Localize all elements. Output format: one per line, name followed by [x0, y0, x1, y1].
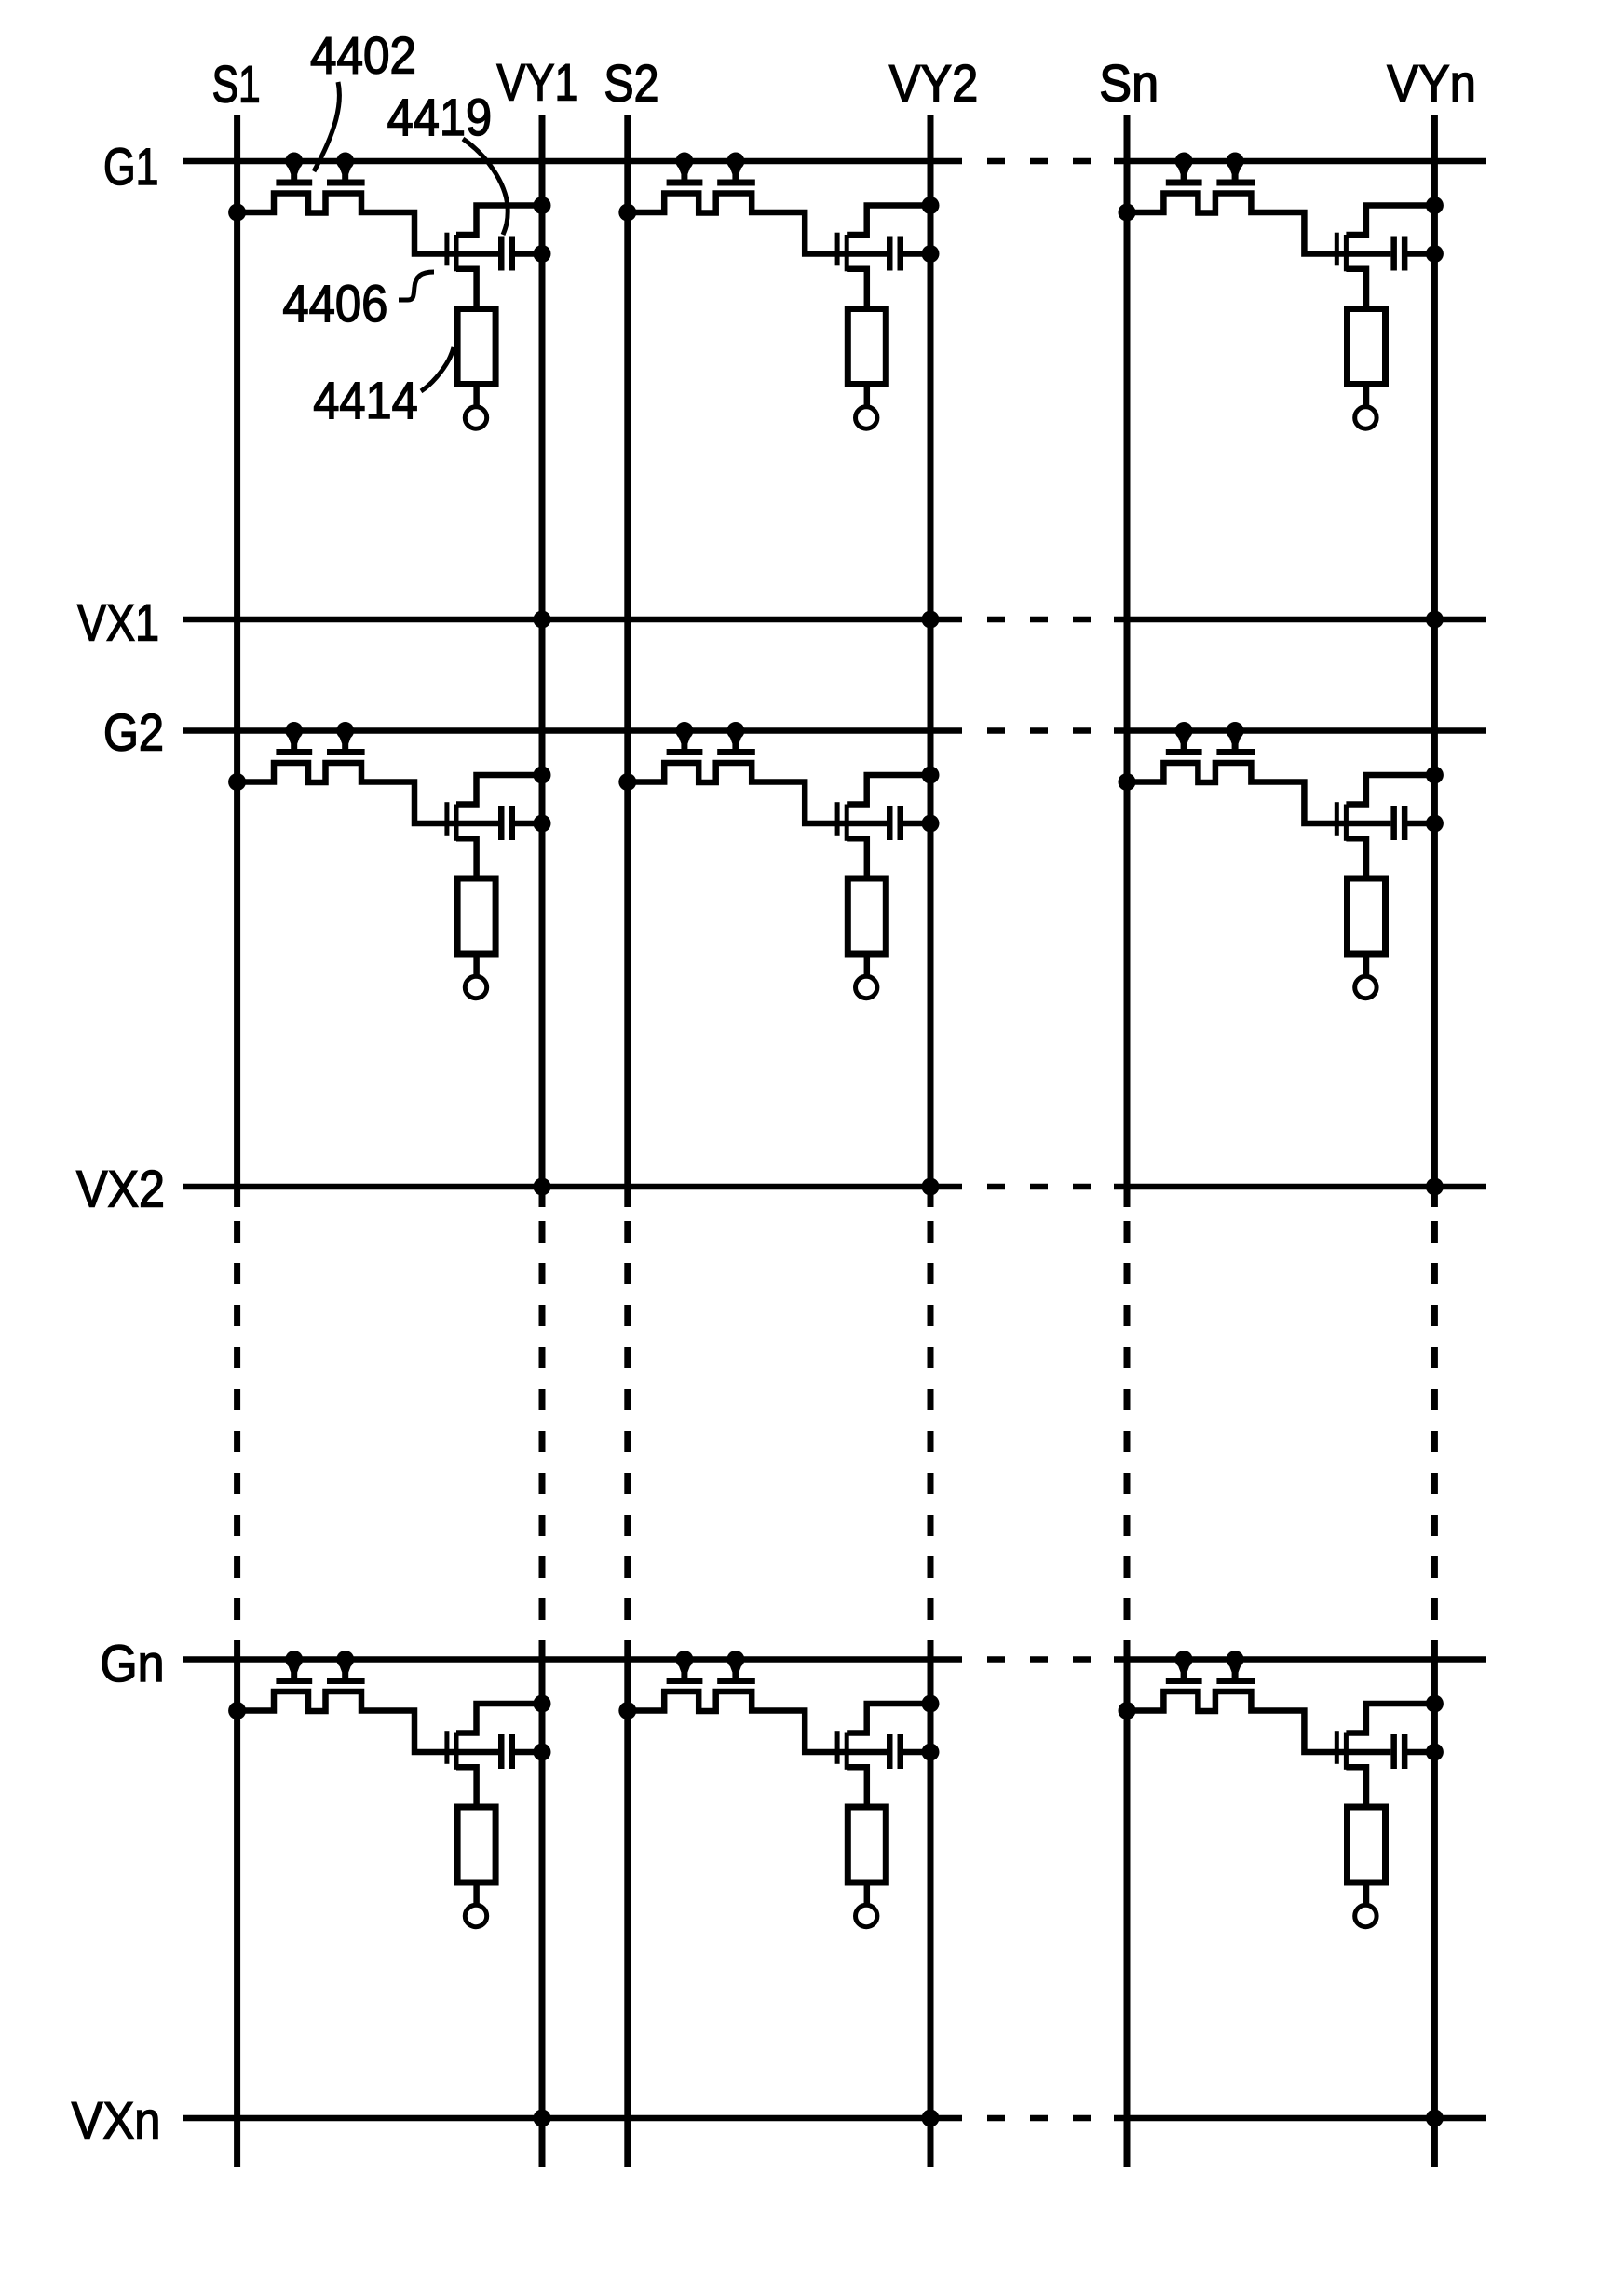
gate line G1	[183, 158, 1486, 165]
junction on VYn: drain tap (row G1, col Sn)	[1426, 197, 1444, 214]
transistor 4402 dual-gate switching TFT (row G1, col S1): gate dots on G1	[285, 153, 354, 170]
junction on VY2 at VXn crossing (row Gn, col S2)	[922, 2110, 940, 2127]
wire: capacitor to VY2 (row G2, col S2)	[902, 821, 930, 827]
svg-text:G1: G1	[103, 137, 158, 196]
junction on VY2: capacitor tap (row G2, col S2)	[922, 815, 940, 833]
EL element 4414 (row Gn, col S1): rectangle body	[457, 1807, 495, 1882]
junction on VY1: drain tap (row G2, col S1)	[534, 767, 551, 784]
capacitor 4419 storage capacitor (row Gn, col S1)	[498, 1734, 515, 1769]
wire: EL element bottom lead (row G2, col Sn)	[1363, 954, 1370, 975]
transistor 4402 gate leads and gate bars (row G2, col S2)	[667, 733, 755, 756]
wire: drain of 4406 to VYn (row Gn, col Sn)	[1346, 1704, 1434, 1733]
terminal: counter-electrode circle of EL element (row Gn, col Sn)	[1355, 1905, 1377, 1926]
junction on S1: source tap of 4402 (row G1, col S1)	[228, 204, 246, 222]
junction on VYn at VX1 crossing (row G1, col Sn)	[1426, 611, 1444, 629]
transistor 4402 gate leads and gate bars (row Gn, col S1)	[276, 1662, 364, 1685]
transistor 4402 gate leads and gate bars (row G1, col Sn)	[1166, 163, 1255, 186]
junction on VY1 at VXn crossing (row Gn, col S1)	[534, 2110, 551, 2127]
wire: source of 4406 down to EL element (row Gn, col S2)	[847, 1767, 867, 1803]
wire: drain of 4406 to VYn (row G2, col Sn)	[1346, 775, 1434, 805]
transistor 4406 driving TFT (row G2, col S2): gate bar and channel bar	[835, 802, 849, 841]
wire: EL element bottom lead (row G2, col S2)	[864, 954, 871, 975]
wire: source of 4406 down to EL element (row G1, col S2)	[847, 269, 867, 306]
gate line G2	[183, 727, 1486, 734]
terminal: counter-electrode circle of EL element (row G2, col Sn)	[1355, 976, 1377, 998]
junction on VY2: drain tap (row G1, col S2)	[922, 197, 940, 214]
terminal: counter-electrode circle of EL element (row Gn, col S2)	[856, 1905, 877, 1926]
power line VX1	[183, 617, 1486, 623]
junction on VY1 at VX2 crossing (row G2, col S1)	[534, 1178, 551, 1196]
transistor 4402 gate leads and gate bars (row G2, col S1)	[276, 733, 364, 756]
capacitor 4419 storage capacitor (row Gn, col S2)	[887, 1734, 903, 1769]
junction on VYn: drain tap (row Gn, col Sn)	[1426, 1695, 1444, 1713]
transistor 4406 driving TFT (row G1, col Sn): gate bar and channel bar	[1335, 233, 1349, 272]
junction on S2: source tap of 4402 (row G1, col S2)	[618, 204, 636, 222]
junction on Sn: source tap of 4402 (row Gn, col Sn)	[1119, 1702, 1136, 1719]
wire: drain of 4406 to VY2 (row Gn, col S2)	[847, 1704, 930, 1733]
wire: capacitor to VYn (row Gn, col Sn)	[1406, 1749, 1434, 1756]
transistor 4406 driving TFT (row Gn, col S2): gate bar and channel bar	[835, 1731, 849, 1770]
transistor 4402 dual-gate switching TFT (row Gn, col S2): gate dots on Gn	[675, 1651, 744, 1668]
wire: capacitor to VY1 (row Gn, col S1)	[514, 1749, 542, 1756]
transistor 4402 dual-gate switching TFT (row G1, col S2): gate dots on G1	[675, 153, 744, 170]
wire: source of 4406 down to EL element (row G2, col S2)	[847, 838, 867, 875]
label 4414 with leader to EL element	[313, 347, 454, 429]
wire: capacitor to VY2 (row Gn, col S2)	[902, 1749, 930, 1756]
power line VX2	[183, 1184, 1486, 1190]
wire: EL element bottom lead (row Gn, col S2)	[864, 1882, 871, 1904]
wire: drain of 4406 to VY2 (row G1, col S2)	[847, 206, 930, 236]
capacitor 4419 storage capacitor (row G1, col S1)	[498, 237, 515, 271]
wire: 4402 channel from Sn to gate of 4406 (row Gn, col Sn)	[1127, 1691, 1390, 1752]
junction on VYn at VX2 crossing (row G2, col Sn)	[1426, 1178, 1444, 1196]
terminal: counter-electrode circle of EL element (row G2, col S1)	[465, 976, 486, 998]
wire: drain of 4406 to VY1 (row G1, col S1)	[456, 206, 542, 236]
junction on S2: source tap of 4402 (row Gn, col S2)	[618, 1702, 636, 1719]
junction on VY1: capacitor tap (row G1, col S1)	[534, 245, 551, 263]
wire: EL element bottom lead (row Gn, col S1)	[473, 1882, 480, 1904]
junction on VY1: drain tap (row Gn, col S1)	[534, 1695, 551, 1713]
junction on VY2: drain tap (row Gn, col S2)	[922, 1695, 940, 1713]
EL element 4414 (row G2, col S1): rectangle body	[457, 878, 495, 954]
transistor 4406 driving TFT (row Gn, col S1): gate bar and channel bar	[444, 1731, 458, 1770]
svg-text:VX2: VX2	[76, 1159, 165, 1217]
wire: EL element bottom lead (row Gn, col Sn)	[1363, 1882, 1370, 1904]
transistor 4406 driving TFT (row G2, col Sn): gate bar and channel bar	[1335, 802, 1349, 841]
wire: 4402 channel from S1 to gate of 4406 (row G2, col S1)	[237, 763, 498, 823]
junction on VYn: capacitor tap (row Gn, col Sn)	[1426, 1744, 1444, 1761]
wire: source of 4406 down to EL element (row Gn, col Sn)	[1346, 1767, 1366, 1803]
transistor 4406 driving TFT (row G1, col S2): gate bar and channel bar	[835, 233, 849, 272]
junction on VYn: capacitor tap (row G2, col Sn)	[1426, 815, 1444, 833]
EL element 4414 (row G1, col S2): rectangle body	[848, 309, 886, 385]
terminal: counter-electrode circle of EL element (row G1, col S2)	[856, 407, 877, 428]
wire: drain of 4406 to VY2 (row G2, col S2)	[847, 775, 930, 805]
EL element 4414 (row Gn, col Sn): rectangle body	[1348, 1807, 1386, 1882]
source line S1	[234, 115, 240, 2167]
junction on VY2: capacitor tap (row G1, col S2)	[922, 245, 940, 263]
svg-text:VXn: VXn	[72, 2091, 161, 2150]
transistor 4406 driving TFT (row Gn, col Sn): gate bar and channel bar	[1335, 1731, 1349, 1770]
junction on VY1 at VX1 crossing (row G1, col S1)	[534, 611, 551, 629]
wire: 4402 channel from S2 to gate of 4406 (row G1, col S2)	[628, 194, 887, 254]
terminal: counter-electrode circle of EL element (row G1, col S1)	[465, 407, 486, 428]
junction on VY2 at VX2 crossing (row G2, col S2)	[922, 1178, 940, 1196]
capacitor 4419 storage capacitor (row G2, col S1)	[498, 806, 515, 840]
svg-text:4406: 4406	[282, 274, 387, 333]
junction on VY2 at VX1 crossing (row G1, col S2)	[922, 611, 940, 629]
capacitor 4419 storage capacitor (row G1, col Sn)	[1390, 237, 1407, 271]
wire: capacitor to VY1 (row G1, col S1)	[514, 251, 542, 257]
junction on Sn: source tap of 4402 (row G2, col Sn)	[1119, 773, 1136, 791]
junction on VYn: drain tap (row G2, col Sn)	[1426, 767, 1444, 784]
wire: 4402 channel from S1 to gate of 4406 (row Gn, col S1)	[237, 1691, 498, 1752]
capacitor 4419 storage capacitor (row Gn, col Sn)	[1390, 1734, 1407, 1769]
capacitor 4419 storage capacitor (row G1, col S2)	[887, 237, 903, 271]
wire: 4402 channel from Sn to gate of 4406 (row G2, col Sn)	[1127, 763, 1390, 823]
svg-text:4414: 4414	[313, 371, 418, 429]
wire: drain of 4406 to VYn (row G1, col Sn)	[1346, 206, 1434, 236]
svg-text:S1: S1	[212, 55, 261, 114]
wire: 4402 channel from S2 to gate of 4406 (row G2, col S2)	[628, 763, 887, 823]
wire: capacitor to VYn (row G1, col Sn)	[1406, 251, 1434, 257]
svg-text:S2: S2	[604, 54, 658, 113]
wire: source of 4406 down to EL element (row G1, col Sn)	[1346, 269, 1366, 306]
junction on S1: source tap of 4402 (row G2, col S1)	[228, 773, 246, 791]
EL element 4414 (row G2, col S2): rectangle body	[848, 878, 886, 954]
transistor 4406 driving TFT (row G2, col S1): gate bar and channel bar	[444, 802, 458, 841]
junction on VY1: capacitor tap (row G2, col S1)	[534, 815, 551, 833]
transistor 4406 driving TFT (row G1, col S1): gate bar and channel bar	[444, 233, 458, 272]
svg-text:VY2: VY2	[889, 54, 979, 113]
transistor 4402 gate leads and gate bars (row Gn, col S2)	[667, 1662, 755, 1685]
transistor 4402 dual-gate switching TFT (row G1, col Sn): gate dots on G1	[1175, 153, 1244, 170]
wire: EL element bottom lead (row G1, col Sn)	[1363, 385, 1370, 406]
junction on VY2: capacitor tap (row Gn, col S2)	[922, 1744, 940, 1761]
wire: 4402 channel from Sn to gate of 4406 (row G1, col Sn)	[1127, 194, 1390, 254]
wire: source of 4406 down to EL element (row G1, col S1)	[456, 269, 477, 306]
transistor 4402 gate leads and gate bars (row G2, col Sn)	[1166, 733, 1255, 756]
transistor 4402 dual-gate switching TFT (row Gn, col Sn): gate dots on Gn	[1175, 1651, 1244, 1668]
capacitor 4419 storage capacitor (row G2, col Sn)	[1390, 806, 1407, 840]
wire: capacitor to VY2 (row G1, col S2)	[902, 251, 930, 257]
transistor 4402 dual-gate switching TFT (row G2, col S1): gate dots on G2	[285, 722, 354, 740]
power line VYn	[1431, 115, 1438, 2167]
transistor 4402 dual-gate switching TFT (row G2, col S2): gate dots on G2	[675, 722, 744, 740]
wire: drain of 4406 to VY1 (row Gn, col S1)	[456, 1704, 542, 1733]
junction on VY2: drain tap (row G2, col S2)	[922, 767, 940, 784]
svg-text:Sn: Sn	[1099, 54, 1159, 113]
junction on VYn at VXn crossing (row Gn, col Sn)	[1426, 2110, 1444, 2127]
junction on Sn: source tap of 4402 (row G1, col Sn)	[1119, 204, 1136, 222]
terminal: counter-electrode circle of EL element (row Gn, col S1)	[465, 1905, 486, 1926]
power line VXn	[183, 2115, 1486, 2122]
capacitor 4419 storage capacitor (row G2, col S2)	[887, 806, 903, 840]
power line VY2	[928, 115, 934, 2167]
label 4419 with leader to storage capacitor	[387, 88, 509, 235]
wire: source of 4406 down to EL element (row Gn, col S1)	[456, 1767, 477, 1803]
EL element 4414 (row G1, col Sn): rectangle body	[1348, 309, 1386, 385]
transistor 4402 gate leads and gate bars (row G1, col S2)	[667, 163, 755, 186]
label 4402 with leader to switching TFT gate	[310, 25, 416, 171]
svg-text:VX1: VX1	[77, 592, 159, 651]
EL element 4414 (row G2, col Sn): rectangle body	[1348, 878, 1386, 954]
svg-text:VY1: VY1	[496, 53, 578, 112]
svg-text:VYn: VYn	[1387, 54, 1476, 113]
svg-text:4402: 4402	[310, 25, 416, 84]
svg-text:4419: 4419	[387, 88, 492, 146]
wire: capacitor to VY1 (row G2, col S1)	[514, 821, 542, 827]
junction on VY1: drain tap (row G1, col S1)	[534, 197, 551, 214]
wire: 4402 channel from S1 to gate of 4406 (row G1, col S1)	[237, 194, 498, 254]
wire: EL element bottom lead (row G1, col S2)	[864, 385, 871, 406]
junction on VY1: capacitor tap (row Gn, col S1)	[534, 1744, 551, 1761]
EL element 4414 (row Gn, col S2): rectangle body	[848, 1807, 886, 1882]
junction on S2: source tap of 4402 (row G2, col S2)	[618, 773, 636, 791]
wire: source of 4406 down to EL element (row G2, col S1)	[456, 838, 477, 875]
junction on VYn: capacitor tap (row G1, col Sn)	[1426, 245, 1444, 263]
EL element 4414 (row G1, col S1): rectangle body	[457, 309, 495, 385]
wire: drain of 4406 to VY1 (row G2, col S1)	[456, 775, 542, 805]
label 4406 with leader to driving TFT	[282, 272, 434, 333]
source line Sn	[1124, 115, 1131, 2167]
power line VY1	[539, 115, 546, 2167]
svg-text:Gn: Gn	[100, 1634, 164, 1692]
svg-text:G2: G2	[103, 703, 164, 762]
transistor 4402 gate leads and gate bars (row Gn, col Sn)	[1166, 1662, 1255, 1685]
wire: EL element bottom lead (row G2, col S1)	[473, 954, 480, 975]
source line S2	[624, 115, 631, 2167]
wire: source of 4406 down to EL element (row G2, col Sn)	[1346, 838, 1366, 875]
wire: capacitor to VYn (row G2, col Sn)	[1406, 821, 1434, 827]
wire: EL element bottom lead (row G1, col S1)	[473, 385, 480, 406]
transistor 4402 dual-gate switching TFT (row Gn, col S1): gate dots on Gn	[285, 1651, 354, 1668]
terminal: counter-electrode circle of EL element (row G2, col S2)	[856, 976, 877, 998]
terminal: counter-electrode circle of EL element (row G1, col Sn)	[1355, 407, 1377, 428]
junction on S1: source tap of 4402 (row Gn, col S1)	[228, 1702, 246, 1719]
wire: 4402 channel from S2 to gate of 4406 (row Gn, col S2)	[628, 1691, 887, 1752]
transistor 4402 dual-gate switching TFT (row G2, col Sn): gate dots on G2	[1175, 722, 1244, 740]
transistor 4402 gate leads and gate bars (row G1, col S1)	[276, 163, 364, 186]
gate line Gn	[183, 1656, 1486, 1663]
